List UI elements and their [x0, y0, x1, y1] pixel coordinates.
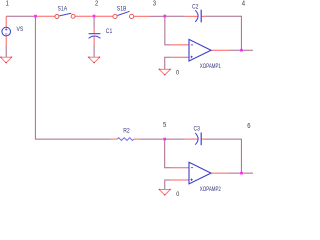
svg-text:C2: C2 [192, 4, 198, 10]
wire [166, 138, 185, 140]
capacitor C3 [194, 126, 202, 145]
wire [229, 172, 253, 174]
junction node 5 [163, 138, 166, 141]
wire [211, 172, 229, 174]
op-amp U1 [189, 39, 221, 70]
wire [185, 15, 198, 17]
resistor R2 [117, 128, 134, 140]
voltage source VS [2, 27, 24, 36]
ground [0, 57, 12, 64]
svg-text:S1B: S1B [117, 6, 127, 12]
svg-text:C3: C3 [194, 126, 200, 132]
wire [165, 16, 171, 45]
wire [134, 15, 149, 17]
junction node 1 [34, 15, 37, 18]
svg-text:R2: R2 [123, 128, 129, 134]
wire [205, 139, 242, 173]
svg-text:3: 3 [153, 0, 157, 7]
junction node 3 [164, 15, 167, 18]
wire [6, 15, 34, 17]
wire [211, 49, 229, 51]
ground [159, 189, 180, 198]
wire [201, 138, 204, 140]
wire [93, 45, 95, 58]
wire [185, 138, 198, 140]
svg-text:5: 5 [163, 122, 167, 130]
wire [134, 138, 140, 140]
wire [93, 36, 95, 44]
switch S1A [55, 6, 75, 19]
wire [93, 17, 95, 29]
wire [165, 180, 171, 189]
wire [5, 16, 7, 27]
wire [5, 46, 7, 58]
svg-text:VS: VS [17, 27, 24, 33]
wire [35, 16, 110, 139]
capacitor C2 [192, 4, 201, 22]
svg-text:2: 2 [95, 0, 99, 7]
svg-text:0: 0 [176, 192, 180, 198]
wire [5, 36, 7, 46]
wire [75, 15, 93, 17]
wire [201, 15, 204, 17]
wire [205, 16, 242, 50]
svg-text:XOPAMP2: XOPAMP2 [200, 186, 221, 193]
wire [171, 56, 189, 58]
wire [165, 57, 171, 69]
svg-text:1: 1 [6, 0, 10, 7]
op-amp U2 [189, 162, 221, 193]
wire [229, 49, 253, 51]
svg-text:4: 4 [242, 0, 246, 7]
ground [88, 57, 100, 64]
svg-text:S1A: S1A [58, 6, 68, 12]
wire [171, 179, 189, 181]
svg-text:6: 6 [247, 123, 251, 131]
wire [171, 44, 189, 46]
wire [111, 138, 118, 140]
wire [171, 167, 189, 169]
svg-text:XOPAMP1: XOPAMP1 [200, 63, 221, 70]
svg-text:0: 0 [176, 70, 180, 76]
wire [93, 29, 95, 34]
wire [95, 15, 113, 17]
wire [36, 15, 55, 17]
junction node 4 [240, 49, 243, 52]
wire [166, 15, 185, 17]
wire [149, 15, 164, 17]
wire [140, 138, 163, 140]
wire [165, 139, 171, 168]
ground [159, 69, 180, 77]
switch S1B [113, 6, 134, 19]
junction node 6 [240, 172, 243, 175]
junction node 2 [93, 15, 96, 18]
capacitor C1 [89, 29, 113, 39]
svg-text:C1: C1 [106, 29, 112, 35]
